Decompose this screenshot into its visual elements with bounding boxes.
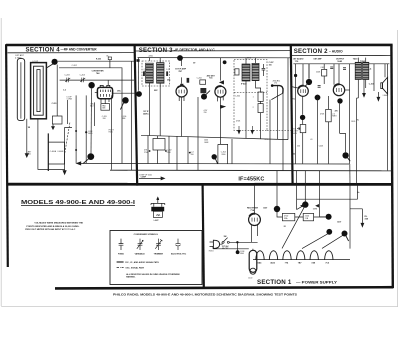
wire grid drop: [181, 60, 183, 84]
wire below tube: [181, 97, 183, 136]
svg-text:C-2: C-2: [63, 90, 66, 92]
svg-text:VOLTAGES WERE MEASURED BETW: VOLTAGES WERE MEASURED BETWEEN THE: [34, 222, 83, 225]
junction square at divider: [136, 59, 139, 62]
svg-text:C-2: C-2: [166, 69, 169, 71]
svg-text:C-400B: C-400B: [57, 151, 64, 153]
note paragraph: [25, 222, 83, 231]
svg-text:TONE: TONE: [360, 61, 366, 63]
plate dot: [201, 94, 207, 100]
top bus wire: [138, 57, 291, 59]
wire switch to tube: [220, 242, 258, 244]
svg-text:C-203: C-203: [64, 74, 69, 76]
1st audio tube 7C6: [298, 86, 309, 97]
svg-text:POINTS INDICATED AND B-MINUS A: POINTS INDICATED AND B-MINUS A 20,000 OH…: [26, 225, 79, 228]
svg-text:IF ADJ: IF ADJ: [241, 83, 247, 86]
wire v334: [333, 64, 335, 85]
wire bus left drop: [137, 58, 139, 91]
cap box C-301: [153, 139, 165, 151]
node dot B: [302, 201, 308, 207]
trimmer box C200: [52, 116, 62, 124]
svg-text:DET AMP: DET AMP: [314, 58, 323, 61]
legend path lines: [117, 261, 124, 263]
svg-text:7C6: 7C6: [209, 78, 212, 80]
test point dot: [136, 91, 142, 97]
svg-text:Z200: Z200: [149, 55, 153, 57]
node dot C2: [326, 229, 332, 235]
svg-text:GRID: GRID: [88, 133, 93, 135]
node dot A: [274, 206, 280, 212]
small caps on bus: [330, 67, 346, 69]
rectifier tube 7Y4: [249, 214, 261, 226]
right verticals: [270, 58, 288, 171]
svg-text:OSC. SIGNAL PATH: OSC. SIGNAL PATH: [125, 267, 144, 270]
com gnd drop: [236, 242, 238, 250]
grid dot: [306, 79, 312, 85]
header section 3 title: [135, 47, 290, 54]
wire left stub: [95, 92, 98, 94]
lamp arms: [151, 203, 165, 206]
wire v148: [147, 136, 149, 164]
svg-text:ELECTROLYTIC: ELECTROLYTIC: [171, 253, 187, 255]
wire tube top: [254, 186, 256, 214]
svg-text:ALL RESISTOR VALUES IN OHMS UN: ALL RESISTOR VALUES IN OHMS UNLESS OTHER…: [126, 273, 180, 276]
svg-text:ADJ: ADJ: [90, 104, 93, 107]
trimmer cap C-202: [65, 78, 70, 83]
output transformer T400 coil1: [355, 62, 361, 79]
IF transformer Z201 dashed box: [234, 60, 267, 131]
wire to det tube: [220, 58, 222, 81]
coil lead wires: [149, 58, 160, 136]
horizontal run y133: [141, 135, 288, 139]
lamp stem: [157, 198, 159, 203]
variable cap symbol: [137, 239, 143, 250]
wire v317: [317, 95, 319, 164]
Z201 cap element: [262, 64, 266, 76]
wire v324: [323, 64, 325, 84]
fil label right: [365, 216, 369, 220]
loop label: [33, 61, 39, 63]
IF transformer Z200 dashed box: [142, 61, 170, 86]
arrow out right: [221, 105, 225, 108]
tube pins down: [101, 99, 109, 104]
wire v94 short: [93, 102, 95, 126]
svg-text:C-204: C-204: [197, 78, 202, 80]
wire tube to IF: [113, 92, 139, 94]
svg-text:FIXED: FIXED: [118, 253, 124, 255]
svg-text:170: 170: [274, 82, 277, 84]
wire loop left down: [26, 119, 28, 154]
B+ drop: [109, 60, 111, 68]
svg-text:470: 470: [335, 110, 338, 113]
node dot on bus: [177, 55, 183, 61]
frame right edge: [391, 45, 392, 288]
wire v387: [387, 64, 389, 171]
test point dot TP: [52, 59, 58, 65]
svg-text:ADJ: ADJ: [28, 152, 31, 155]
plug body: [213, 240, 219, 248]
fixed cap symbol: [119, 239, 124, 250]
small node dot: [223, 60, 227, 64]
ext antenna element: [17, 59, 24, 121]
wire dot to divider: [58, 60, 134, 62]
wire bottom horiz: [78, 162, 350, 165]
divider section4/3: [135, 45, 138, 186]
svg-text:455KC: 455KC: [143, 112, 149, 115]
svg-text:C-202: C-202: [72, 65, 77, 67]
coupling cap + resistor box: [318, 86, 321, 88]
sections bottom band line: [7, 183, 392, 186]
avc wire in: [292, 87, 298, 88]
Z200 secondary coil: [157, 63, 164, 84]
switch SW: [222, 241, 224, 243]
diagonal feeds: [282, 208, 343, 249]
svg-text:LS400: LS400: [383, 95, 388, 97]
wire osc down: [65, 127, 72, 170]
wire top run 2: [60, 79, 134, 81]
misc tiny labels scatter: [28, 58, 374, 229]
plate dot mid: [315, 95, 321, 101]
cap box C-204: [200, 80, 206, 84]
wire right column: [131, 61, 133, 170]
resistor box mid: [326, 109, 332, 121]
transformer ground arrow: [363, 80, 366, 97]
svg-text:IF=455KC: IF=455KC: [238, 176, 264, 182]
svg-text:C-204: C-204: [80, 74, 85, 76]
Z201 secondary coil: [252, 63, 259, 80]
Z201 small box: [235, 69, 239, 75]
dark box: [200, 88, 206, 93]
wire dotA to res: [277, 212, 326, 217]
ext antenna label: [15, 54, 25, 59]
diode load resistors: [258, 92, 263, 101]
detector tube 7C6 sec3: [215, 86, 226, 97]
bottom horizontal: [349, 164, 351, 185]
avc labels: [204, 96, 269, 144]
top bus wire: [293, 63, 389, 65]
svg-text:—RF AND CONVERTER: —RF AND CONVERTER: [61, 48, 98, 52]
svg-text:SECTION 1: SECTION 1: [257, 279, 292, 286]
svg-text:– AUDIO: – AUDIO: [329, 50, 343, 54]
svg-text:C-201: C-201: [52, 103, 57, 105]
electrolytic C100: [249, 250, 257, 272]
wire top run 1: [59, 68, 122, 164]
svg-text:7A8: 7A8: [96, 72, 99, 75]
IF band top line: [110, 169, 392, 172]
heater arch 5: [310, 251, 318, 260]
wire v67: [67, 100, 69, 124]
svg-text:LAMP: LAMP: [154, 219, 160, 222]
header section 4 title: [8, 47, 135, 54]
Z201 primary coil: [242, 64, 250, 81]
B+ tap symbol: [107, 56, 110, 58]
test point dot lower: [87, 153, 94, 160]
frame bottom edge: [55, 287, 393, 288]
wire v111: [111, 95, 113, 169]
wire below det: [218, 97, 232, 164]
volume control box: [300, 125, 306, 133]
junction dot: [236, 241, 238, 243]
Z200 primary coil: [146, 63, 154, 83]
heater string baseline: [253, 259, 350, 261]
wire v177: [176, 136, 178, 170]
svg-text:C403: C403: [319, 146, 323, 148]
node dot C: [326, 214, 332, 220]
wire from dot down: [56, 65, 58, 116]
wire v169: [168, 136, 170, 164]
svg-text:COMP: COMP: [141, 176, 147, 178]
ground arrow ant: [25, 154, 28, 158]
ground arrow speaker: [377, 92, 380, 101]
svg-text:CONDENSER SYMBOLS: CONDENSER SYMBOLS: [134, 234, 159, 236]
wire grid cap down: [90, 88, 93, 153]
dot lower right: [342, 152, 348, 158]
transformer leads: [358, 58, 365, 98]
symbol labels: [118, 252, 187, 255]
arrow left end: [77, 162, 81, 165]
svg-text:CONN: CONN: [67, 99, 73, 101]
converter tube 7A8: [97, 87, 112, 98]
legend box border: [110, 231, 202, 285]
output transformer T400 coil2: [363, 62, 369, 79]
node dot D: [342, 231, 348, 237]
svg-text:RUN: RUN: [109, 131, 114, 133]
lower ac wire: [213, 246, 249, 248]
svg-text:1: 1: [253, 97, 254, 99]
test arrows: [301, 205, 304, 207]
bead component: [187, 78, 190, 83]
svg-text:22: 22: [284, 226, 286, 228]
svg-text:R.F., I.F., AND AUDIO SIGNAL P: R.F., I.F., AND AUDIO SIGNAL PATH: [125, 261, 159, 264]
junction dot: [294, 74, 297, 77]
ground at trimmer: [52, 124, 54, 127]
detector elbow: [272, 86, 283, 94]
wire v86: [85, 95, 87, 163]
resistor box RES1: [282, 213, 294, 220]
tube pins: [252, 225, 258, 243]
svg-text:C-413: C-413: [369, 82, 374, 85]
wire loop right down: [38, 119, 65, 170]
wire T5 right link: [345, 89, 350, 91]
speaker LS400: [381, 83, 383, 89]
svg-text:C-400A: C-400A: [50, 150, 57, 153]
svg-text:GND: GND: [240, 253, 245, 255]
svg-text:33: 33: [293, 154, 295, 156]
svg-text:700: 700: [204, 112, 207, 114]
electrolytic cap symbol: [175, 239, 180, 250]
header section 2 title: [292, 48, 391, 55]
wire v198: [197, 97, 199, 170]
wire v374: [373, 64, 375, 91]
wire gang left: [47, 133, 49, 171]
divider section3/2: [291, 45, 293, 185]
svg-text:250: 250: [297, 146, 300, 148]
heater labels: [257, 262, 330, 265]
cathode dot: [337, 98, 342, 103]
labels top: [64, 65, 84, 76]
svg-text:3300: 3300: [221, 154, 225, 156]
svg-text:VARIABLE: VARIABLE: [135, 252, 146, 255]
loop antenna L200: [31, 63, 47, 119]
wire v188: [187, 137, 189, 164]
svg-text:SW: SW: [224, 236, 227, 238]
svg-text:MARKED.: MARKED.: [126, 276, 136, 279]
svg-text:C-300: C-300: [235, 96, 240, 98]
grid cap dot: [88, 82, 94, 88]
trimmer cap C-203: [80, 78, 85, 83]
svg-text:2: 2: [253, 107, 254, 109]
gang linkage dash: [65, 122, 70, 153]
svg-text:MEG: MEG: [332, 116, 337, 118]
labels: [144, 69, 208, 114]
grid cap box: [180, 84, 183, 87]
output tube 50A5: [333, 84, 344, 95]
labels: [293, 57, 372, 70]
plug prongs: [210, 242, 214, 246]
wire T5 top feed: [338, 64, 340, 85]
wire v349: [349, 64, 351, 164]
comp of Z201 label: [139, 174, 152, 176]
frame left edge (fades near bottom): [6, 44, 8, 267]
coil leads: [246, 58, 261, 139]
tube pins: [179, 97, 184, 101]
svg-text:B+: B+: [357, 192, 359, 194]
svg-text:1ST IF AMP: 1ST IF AMP: [175, 68, 187, 71]
audio verticals: [295, 64, 297, 164]
svg-text:200: 200: [191, 154, 194, 156]
svg-text:SECTION 2: SECTION 2: [294, 48, 328, 55]
heater arch 2: [269, 251, 277, 260]
wire v76: [75, 95, 77, 163]
svg-text:–IF, DETECTOR, AND A V C: –IF, DETECTOR, AND A V C: [174, 48, 216, 52]
trimmer cap symbol: [155, 239, 162, 250]
svg-text:7A8: 7A8: [365, 218, 368, 221]
svg-text:100: 100: [269, 65, 272, 67]
wire T4 top feed: [302, 64, 304, 86]
svg-text:C405: C405: [351, 121, 355, 123]
rectifier label: [247, 208, 258, 213]
svg-text:R-200: R-200: [96, 58, 101, 60]
svg-text:PHILCO RADIO, MODELS 49-900-E: PHILCO RADIO, MODELS 49-900-E AND 49-900…: [113, 292, 297, 296]
labels mid: [67, 97, 127, 134]
svg-text:INTLK: INTLK: [209, 251, 215, 253]
wire v356 down to power: [356, 98, 358, 184]
gang tuning cond box: [48, 142, 64, 164]
lamp lower box: [153, 211, 162, 217]
IF amp tube 7B7: [176, 86, 187, 97]
svg-text:TRIMMER: TRIMMER: [154, 253, 164, 255]
arrow into tube top: [220, 81, 224, 84]
svg-text:200: 200: [103, 118, 106, 120]
frame top edge: [6, 44, 393, 47]
svg-text:Z201: Z201: [247, 58, 251, 60]
plate dot: [122, 97, 128, 103]
wire v383 speaker top: [384, 64, 386, 77]
heater arch 4: [297, 251, 305, 260]
wire below 50A5: [340, 104, 346, 134]
svg-text:OHM: OHM: [204, 142, 209, 144]
svg-text:PER-VOLT METER WITH AN INPUT A: PER-VOLT METER WITH AN INPUT AT 117 V A-…: [25, 228, 76, 231]
svg-text:.01: .01: [310, 139, 313, 141]
heater arch 3: [283, 251, 291, 260]
Z200 trimmer ticks: [143, 71, 145, 76]
power box left edge: [203, 185, 204, 288]
fil wire w arrow: [297, 185, 363, 223]
resistor box RES2: [303, 213, 313, 220]
heater arch 1: [256, 251, 264, 260]
tube pins down: [218, 97, 224, 102]
pad condenser box: [101, 104, 110, 111]
svg-text:C100: C100: [248, 277, 252, 279]
dot test point: [212, 154, 217, 159]
lamp black band: [151, 207, 164, 212]
svg-text:— POWER SUPPLY: — POWER SUPPLY: [296, 281, 338, 285]
heater arch 6: [325, 251, 333, 260]
ground arrow osc: [63, 171, 66, 175]
